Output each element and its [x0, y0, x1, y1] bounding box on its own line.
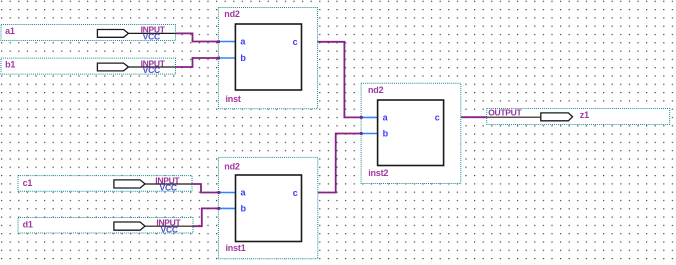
- svg-text:a1: a1: [5, 26, 15, 36]
- svg-text:VCC: VCC: [160, 182, 177, 192]
- svg-text:c: c: [293, 188, 298, 198]
- svg-text:inst2: inst2: [368, 168, 388, 178]
- svg-text:b: b: [241, 203, 247, 213]
- svg-text:inst1: inst1: [226, 243, 246, 253]
- svg-text:nd2: nd2: [224, 9, 240, 19]
- svg-text:VCC: VCC: [143, 31, 160, 41]
- svg-text:z1: z1: [580, 110, 589, 120]
- svg-text:c: c: [293, 37, 298, 47]
- svg-text:nd2: nd2: [224, 161, 240, 171]
- svg-text:b: b: [240, 53, 246, 63]
- svg-text:b1: b1: [5, 59, 15, 69]
- svg-text:d1: d1: [23, 219, 33, 229]
- svg-text:c: c: [435, 113, 440, 123]
- svg-text:b: b: [383, 129, 389, 139]
- svg-text:nd2: nd2: [368, 85, 384, 95]
- svg-text:OUTPUT: OUTPUT: [488, 108, 522, 118]
- svg-text:c1: c1: [23, 178, 33, 188]
- svg-text:inst: inst: [226, 94, 241, 104]
- svg-text:VCC: VCC: [161, 224, 178, 234]
- svg-text:VCC: VCC: [143, 65, 160, 75]
